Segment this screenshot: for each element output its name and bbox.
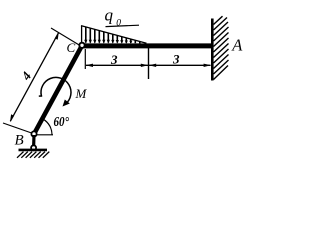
wall hatching bbox=[214, 16, 229, 79]
svg-text:M: M bbox=[75, 86, 88, 101]
support lower hinge bbox=[30, 144, 37, 151]
svg-text:3: 3 bbox=[110, 52, 118, 67]
svg-text:3: 3 bbox=[172, 52, 180, 67]
distributed load q0 triangle bbox=[81, 26, 147, 44]
middle tick bbox=[148, 48, 150, 79]
ground hatching bbox=[17, 152, 49, 158]
beam CA bbox=[81, 43, 212, 48]
svg-text:A: A bbox=[231, 36, 243, 55]
load label underline bbox=[106, 25, 140, 26]
dim 4 arrowheads bbox=[10, 32, 59, 122]
wall at A bbox=[211, 19, 214, 81]
svg-text:0: 0 bbox=[116, 19, 121, 29]
hinge B bbox=[31, 131, 38, 138]
svg-text:B: B bbox=[15, 133, 24, 149]
dim arrows bbox=[86, 64, 211, 67]
dimension line 3+3 bbox=[86, 64, 211, 66]
svg-text:q: q bbox=[105, 6, 114, 25]
ground line at B bbox=[19, 149, 48, 152]
extension line at C bbox=[84, 49, 86, 69]
svg-text:60°: 60° bbox=[54, 114, 70, 129]
distributed load arrows bbox=[86, 27, 140, 43]
dimension line 4 bbox=[10, 33, 58, 122]
angle baseline at B bbox=[36, 134, 53, 136]
support link at B bbox=[32, 135, 36, 148]
distributed load arrowheads bbox=[84, 40, 132, 44]
hinge C bbox=[78, 42, 85, 49]
bar BC bbox=[34, 46, 82, 135]
angle arc 60deg bbox=[43, 119, 52, 135]
moment M arc bbox=[39, 77, 71, 104]
extension line at B (for 4) bbox=[3, 123, 33, 134]
moment arrowhead bbox=[63, 100, 70, 107]
extension line at C (for 4) bbox=[51, 28, 80, 46]
